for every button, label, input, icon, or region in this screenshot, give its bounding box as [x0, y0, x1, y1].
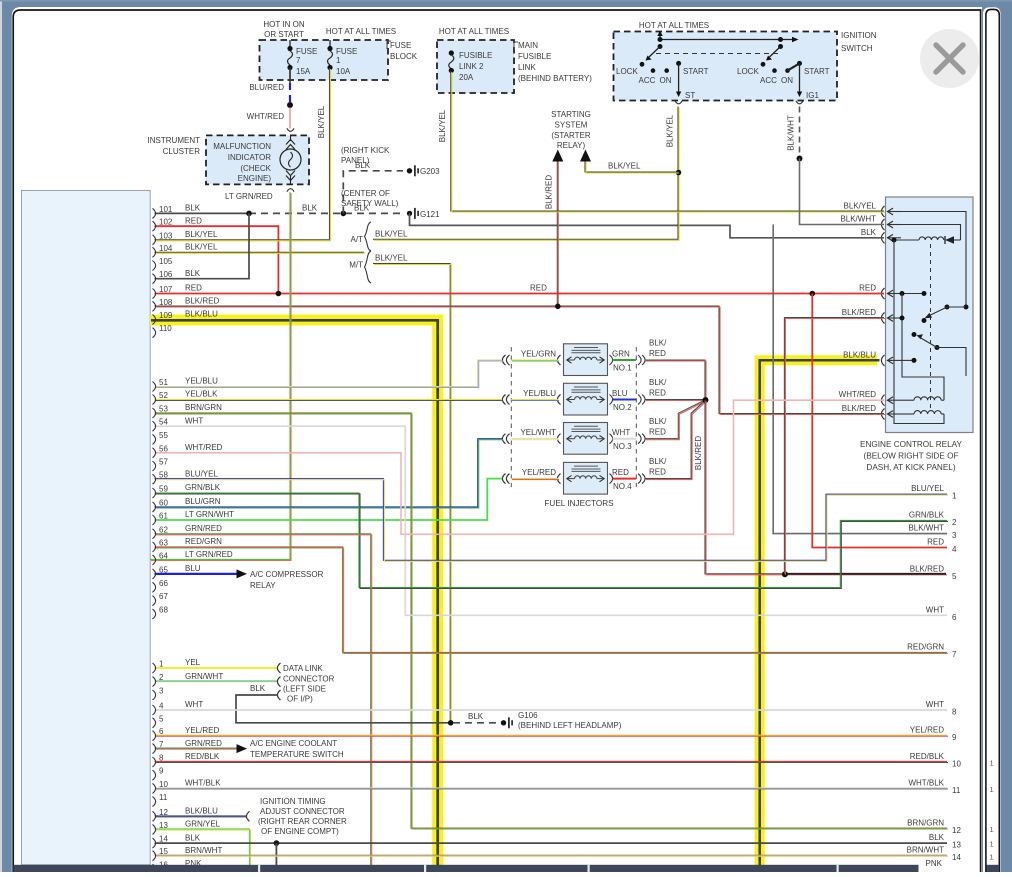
wire BLK drop off page: [275, 843, 277, 866]
svg-text:11: 11: [159, 793, 168, 802]
svg-text:BLK/YEL: BLK/YEL: [375, 229, 408, 238]
ECM pin 106: [153, 274, 156, 284]
svg-text:13: 13: [159, 821, 168, 830]
fuel injector NO.4: [564, 462, 608, 494]
wire 15 BRN/WHT across page: [155, 854, 948, 856]
ECM pin 55: [153, 434, 156, 444]
svg-text:LT GRN/RED: LT GRN/RED: [185, 550, 233, 559]
wire BLK from DLC to G106: [236, 695, 450, 723]
svg-text:BLK: BLK: [302, 203, 318, 212]
fuse block: [260, 40, 389, 80]
wire 52 YEL/BLK to injector NO.2: [155, 399, 503, 401]
svg-text:1: 1: [336, 56, 341, 65]
svg-text:BLK/YEL: BLK/YEL: [185, 230, 218, 239]
svg-text:WHT: WHT: [612, 428, 630, 437]
ignition switch bus wire: [660, 39, 794, 41]
wire BLK/RED main to relay and edge pin 5: [705, 400, 946, 574]
svg-text:15A: 15A: [296, 67, 311, 76]
relay input pin BLK/WHT: [881, 219, 884, 230]
svg-text:53: 53: [159, 405, 168, 414]
wire YEL/WHT injector NO.3 lead: [511, 438, 558, 440]
svg-text:SWITCH: SWITCH: [841, 44, 873, 53]
ECM pin 62: [153, 529, 156, 539]
injector NO.2 connectors: [557, 395, 560, 405]
relay input pin BLK/YEL: [881, 206, 884, 217]
svg-text:NO.4: NO.4: [613, 482, 632, 491]
wire YEL/RED injector NO.4 lead: [511, 478, 558, 480]
junction 107 RED to edge pin 4: [810, 291, 816, 297]
svg-text:66: 66: [159, 579, 168, 588]
svg-text:NO.2: NO.2: [613, 403, 632, 412]
ECM pin 7: [153, 744, 156, 754]
wire 16 PNK stub: [155, 868, 211, 870]
svg-text:52: 52: [159, 391, 168, 400]
svg-text:GRN/BLK: GRN/BLK: [909, 510, 945, 519]
svg-text:NO.1: NO.1: [613, 364, 632, 373]
relay BLK/WHT internal drop: [901, 225, 961, 241]
svg-text:BLK/YEL: BLK/YEL: [666, 114, 675, 147]
wire WHT/RED to cluster: [289, 108, 291, 129]
junction 102/107: [276, 291, 282, 297]
junction 14 BLK: [274, 840, 280, 846]
ECM pin 9: [153, 770, 156, 780]
svg-text:7: 7: [159, 740, 164, 749]
relay input pin BLK/RED: [881, 409, 884, 420]
wire BLK/RED injector NO.2 to junction: [645, 399, 703, 401]
ECM pin 13: [153, 824, 156, 834]
svg-text:OF I/P): OF I/P): [287, 695, 313, 704]
wire 6 YEL/RED across page: [155, 734, 948, 736]
svg-text:ADJUST CONNECTOR: ADJUST CONNECTOR: [260, 807, 345, 816]
svg-text:CONNECTOR: CONNECTOR: [283, 675, 335, 684]
svg-text:RED/BLK: RED/BLK: [185, 752, 220, 761]
svg-text:WHT: WHT: [185, 700, 203, 709]
wire LT GRN/RED from MIL to pin 64: [150, 192, 290, 559]
svg-text:BLK: BLK: [185, 204, 201, 213]
relay switch 1: [964, 305, 969, 310]
svg-text:RED: RED: [649, 468, 666, 477]
svg-text:MAIN: MAIN: [518, 41, 538, 50]
ECM pin 67: [153, 596, 156, 606]
A/T M/T brace: [365, 222, 372, 251]
svg-text:WHT/RED: WHT/RED: [185, 443, 223, 452]
relay BLK/BLU internal stub: [901, 359, 914, 361]
wire M/T BLK/YEL to G106 junction: [373, 264, 450, 723]
ECM pin 66: [153, 582, 156, 592]
relay armature dashed link: [930, 244, 932, 410]
svg-text:9: 9: [159, 767, 164, 776]
ECM pin 11: [153, 797, 156, 807]
svg-text:HOT AT ALL TIMES: HOT AT ALL TIMES: [639, 21, 709, 30]
svg-text:(BEHIND LEFT HEADLAMP): (BEHIND LEFT HEADLAMP): [518, 721, 622, 730]
svg-text:INDICATOR: INDICATOR: [228, 153, 271, 162]
svg-text:68: 68: [159, 606, 168, 615]
ECM pin 101: [153, 208, 156, 218]
junction BLU/RED WHT/RED splice: [287, 102, 293, 108]
wire 104 BLK/YEL to brace: [155, 251, 365, 253]
svg-text:14: 14: [952, 853, 961, 862]
svg-text:WHT/RED: WHT/RED: [247, 112, 285, 121]
highlighted wire 109 BLK/BLU trace (yellow): [150, 320, 438, 866]
svg-text:INSTRUMENT: INSTRUMENT: [148, 136, 201, 145]
svg-text:13: 13: [952, 841, 961, 850]
svg-text:CLUSTER: CLUSTER: [163, 147, 201, 156]
svg-text:BLK/WHT: BLK/WHT: [787, 115, 796, 151]
svg-text:107: 107: [159, 285, 173, 294]
svg-text:BLK: BLK: [355, 161, 371, 170]
svg-text:58: 58: [159, 471, 168, 480]
svg-text:GRN/RED: GRN/RED: [185, 739, 222, 748]
wire 62 GRN/RED down off page: [155, 534, 371, 866]
svg-text:1: 1: [159, 660, 164, 669]
svg-text:WHT: WHT: [185, 416, 203, 425]
ECM pin 61: [153, 515, 156, 525]
svg-text:BLK: BLK: [185, 833, 201, 842]
ECM pin 108: [153, 301, 156, 311]
relay input pin WHT/RED: [881, 395, 884, 406]
svg-text:BLOCK: BLOCK: [390, 52, 418, 61]
wire 107 RED main: [155, 293, 885, 295]
ECM pin 14: [153, 838, 156, 848]
svg-text:RED: RED: [185, 216, 202, 225]
wire 10 WHT/BLK across page: [155, 787, 948, 789]
injector NO.1 connectors: [557, 355, 560, 365]
svg-text:15: 15: [159, 847, 168, 856]
ECM pin 4: [153, 705, 156, 715]
ignition switch left wiper: [658, 37, 663, 42]
wire 14 BLK across page: [155, 842, 948, 844]
svg-text:BLK/BLU: BLK/BLU: [843, 350, 876, 359]
svg-text:BLU/GRN: BLU/GRN: [185, 497, 221, 506]
ECM pin 103: [153, 235, 156, 245]
svg-text:2: 2: [952, 518, 957, 527]
svg-text:BLK/: BLK/: [649, 378, 667, 387]
svg-text:G121: G121: [420, 210, 440, 219]
svg-text:1: 1: [952, 492, 957, 501]
svg-text:11: 11: [952, 786, 961, 795]
wire 13 GRN/YEL down off page: [155, 829, 250, 866]
fuel injector NO.1: [564, 344, 608, 376]
svg-text:OF ENGINE COMPT): OF ENGINE COMPT): [261, 827, 339, 836]
junction BLK G106: [448, 720, 454, 726]
close button: [920, 29, 979, 88]
ECM pin 64: [153, 555, 156, 565]
svg-text:YEL/WHT: YEL/WHT: [520, 428, 556, 437]
svg-text:ST: ST: [685, 91, 695, 100]
wire 108 BLK/RED to relay coil: [155, 306, 885, 414]
ECM pin 63: [153, 542, 156, 552]
ground G106: [501, 720, 506, 725]
wire BLK/RED injector NO.3 to junction: [645, 401, 704, 439]
svg-text:BLK/: BLK/: [649, 457, 667, 466]
svg-text:7: 7: [952, 650, 957, 659]
svg-text:YEL/RED: YEL/RED: [185, 726, 219, 735]
ECM pin 102: [153, 221, 156, 231]
ignition switch right wiper: [778, 37, 783, 42]
svg-text:105: 105: [159, 257, 173, 266]
ECM pin 53: [153, 408, 156, 418]
svg-text:STARTING: STARTING: [551, 110, 591, 119]
svg-text:104: 104: [159, 244, 173, 253]
svg-text:GRN/BLK: GRN/BLK: [185, 483, 221, 492]
svg-text:BLK/RED: BLK/RED: [910, 564, 944, 573]
wire 12 BLK/BLU to ignition timing connector: [155, 815, 247, 817]
wire A/T BLK/YEL to ignition ST: [373, 107, 678, 240]
svg-text:YEL/BLK: YEL/BLK: [185, 390, 218, 399]
svg-text:BLU/YEL: BLU/YEL: [911, 484, 944, 493]
check engine bulb: [280, 149, 301, 170]
svg-text:14: 14: [159, 835, 168, 844]
svg-text:BLU/YEL: BLU/YEL: [185, 469, 218, 478]
wire BLK/WHT from IG1 dashed: [799, 107, 801, 157]
wire BLK/YEL branch to starting system: [585, 159, 678, 172]
svg-text:101: 101: [159, 205, 173, 214]
fuse F1 10A: [329, 40, 331, 48]
main fusible link box: [437, 40, 514, 93]
wire 2 GRN/WHT to data link connector: [155, 680, 278, 682]
svg-text:BLK: BLK: [185, 269, 201, 278]
svg-text:RED: RED: [649, 428, 666, 437]
svg-text:BLK/YEL: BLK/YEL: [375, 254, 408, 263]
svg-text:4: 4: [952, 545, 957, 554]
label MAIN FUSIBLE LINK: [514, 42, 518, 50]
junction injectors BLK/RED: [703, 397, 709, 403]
svg-text:RELAY): RELAY): [557, 141, 586, 150]
svg-text:RED/BLK: RED/BLK: [910, 752, 945, 761]
wire 56 WHT/RED to relay: [155, 400, 885, 534]
svg-text:61: 61: [159, 512, 168, 521]
svg-text:8: 8: [952, 708, 957, 717]
ECM pin 65: [153, 569, 156, 579]
svg-text:(BELOW RIGHT SIDE OF: (BELOW RIGHT SIDE OF: [864, 452, 959, 461]
injector NO.4 right wire segment RED: [613, 478, 637, 480]
svg-text:RED: RED: [649, 349, 666, 358]
svg-text:BLK/RED: BLK/RED: [842, 308, 876, 317]
svg-text:YEL/RED: YEL/RED: [910, 726, 944, 735]
ECM pin 16: [153, 864, 156, 874]
wire 106 BLK: [155, 213, 250, 278]
svg-text:RED/GRN: RED/GRN: [185, 537, 222, 546]
svg-text:RELAY: RELAY: [250, 581, 276, 590]
wire 60 BLU/GRN to injector NO.3: [155, 439, 503, 507]
junction ST branch: [676, 170, 682, 176]
ground G121: [407, 211, 412, 216]
fuel injector NO.2: [564, 383, 608, 415]
svg-text:59: 59: [159, 485, 168, 494]
svg-text:YEL/BLU: YEL/BLU: [185, 377, 218, 386]
svg-text:1: 1: [990, 759, 994, 768]
wire YEL/GRN injector NO.1 lead: [511, 359, 558, 361]
svg-text:(RIGHT REAR CORNER: (RIGHT REAR CORNER: [258, 817, 347, 826]
svg-text:1: 1: [990, 785, 994, 794]
ECM pin 107: [153, 289, 156, 299]
ECM pin 60: [153, 502, 156, 512]
svg-text:ON: ON: [660, 76, 672, 85]
svg-text:DATA LINK: DATA LINK: [283, 664, 323, 673]
svg-text:9: 9: [952, 733, 957, 742]
svg-text:56: 56: [159, 444, 168, 453]
svg-text:FUSIBLE: FUSIBLE: [518, 52, 551, 61]
ECM pin 57: [153, 461, 156, 471]
ECM pin 5: [153, 718, 156, 728]
svg-text:BLK/RED: BLK/RED: [842, 404, 876, 413]
svg-text:(CENTER OF: (CENTER OF: [341, 189, 390, 198]
svg-text:LINK 2: LINK 2: [459, 62, 484, 71]
svg-text:103: 103: [159, 231, 173, 240]
wire RED drop to edge pin 4: [812, 294, 947, 548]
svg-text:WHT: WHT: [926, 605, 944, 614]
bulb connector chevrons top: [286, 140, 295, 150]
svg-text:FUSE: FUSE: [336, 47, 357, 56]
relay input pin RED: [881, 288, 884, 299]
ignition switch box: [614, 32, 838, 101]
svg-text:BRN/WHT: BRN/WHT: [907, 846, 944, 855]
svg-text:M/T: M/T: [349, 261, 363, 270]
svg-text:OR START: OR START: [264, 30, 304, 39]
svg-text:BLK/YEL: BLK/YEL: [608, 162, 641, 171]
svg-text:RED/GRN: RED/GRN: [907, 643, 944, 652]
svg-text:ON: ON: [781, 76, 793, 85]
bulb connector chevrons bottom: [286, 171, 295, 181]
fuse block label: [387, 41, 391, 49]
svg-text:GRN: GRN: [612, 350, 630, 359]
relay coil K2 WHT/RED: [901, 399, 914, 401]
svg-text:A/C COMPRESSOR: A/C COMPRESSOR: [250, 570, 324, 579]
wire 102 RED: [155, 226, 279, 293]
wire 54 WHT to edge pin 6: [155, 426, 948, 615]
data link connector arcs: [277, 663, 280, 673]
svg-text:1: 1: [990, 853, 994, 862]
relay input pin BLK/BLU: [881, 355, 884, 366]
ECM pin 109: [153, 315, 156, 325]
svg-text:51: 51: [159, 378, 168, 387]
wire 101 BLK dashed to grounds: [249, 212, 404, 214]
fuel injector NO.3: [564, 423, 608, 455]
svg-text:BLK/RED: BLK/RED: [545, 175, 554, 209]
svg-text:5: 5: [159, 714, 164, 723]
ECM pin 105: [153, 261, 156, 271]
svg-text:RED: RED: [530, 284, 547, 293]
ECM pin 104: [153, 247, 156, 257]
wire 51 YEL/BLU to injector NO.1: [155, 360, 503, 387]
svg-text:YEL/GRN: YEL/GRN: [521, 350, 556, 359]
svg-text:ACC: ACC: [639, 76, 656, 85]
wire BLK/YEL fusible link to relay: [451, 71, 884, 211]
fusible link 2 20A: [449, 50, 454, 55]
svg-text:SAFETY WALL): SAFETY WALL): [341, 199, 399, 208]
svg-text:BLK: BLK: [354, 203, 370, 212]
svg-text:BRN/GRN: BRN/GRN: [907, 819, 944, 828]
svg-text:ACC: ACC: [760, 76, 777, 85]
ECM pin 8: [153, 757, 156, 767]
svg-text:MALFUNCTION: MALFUNCTION: [213, 142, 271, 151]
wire 58 BLU/YEL to edge pin 1: [155, 479, 948, 561]
svg-text:TEMPERATURE SWITCH: TEMPERATURE SWITCH: [250, 750, 344, 759]
svg-text:12: 12: [159, 808, 168, 817]
wire BLK/RED starter relay drop: [556, 159, 558, 306]
ECM pin 6: [153, 731, 156, 741]
svg-text:10: 10: [159, 780, 168, 789]
relay input pin BLK/RED: [881, 313, 884, 324]
svg-text:BLK/WHT: BLK/WHT: [908, 524, 944, 533]
svg-text:PNK: PNK: [926, 859, 943, 868]
relay input pin BLK: [881, 232, 884, 243]
junction 101/106: [246, 211, 252, 217]
svg-text:IGNITION: IGNITION: [841, 31, 877, 40]
svg-text:6: 6: [159, 727, 164, 736]
svg-text:108: 108: [159, 298, 173, 307]
svg-text:HOT AT ALL TIMES: HOT AT ALL TIMES: [326, 27, 396, 36]
svg-text:3: 3: [952, 531, 957, 540]
svg-text:RED: RED: [927, 538, 944, 547]
svg-text:WHT/RED: WHT/RED: [839, 390, 877, 399]
svg-text:IG1: IG1: [806, 91, 819, 100]
svg-text:FUSE: FUSE: [390, 41, 411, 50]
injector NO.1 right wire segment GRN: [613, 359, 637, 361]
svg-text:BLK/BLU: BLK/BLU: [185, 807, 218, 816]
svg-text:IGNITION TIMING: IGNITION TIMING: [260, 797, 326, 806]
svg-text:65: 65: [159, 565, 168, 574]
svg-text:YEL: YEL: [185, 658, 201, 667]
svg-text:10: 10: [952, 760, 961, 769]
svg-text:WHT: WHT: [926, 700, 944, 709]
ignition switch label: [833, 33, 837, 38]
svg-text:G106: G106: [518, 711, 538, 720]
wire BLU/RED fuse7 dashes: [289, 69, 291, 83]
wire 53 BRN/GRN to edge pin 12: [155, 413, 948, 828]
svg-text:BRN/GRN: BRN/GRN: [185, 403, 222, 412]
fuse F7 15A: [289, 40, 291, 48]
ignition switch IG1 output: [799, 63, 801, 93]
ECM pin 10: [153, 783, 156, 793]
svg-text:106: 106: [159, 270, 173, 279]
dashed BLK to G106: [453, 722, 497, 724]
svg-text:4: 4: [159, 702, 164, 711]
svg-text:LINK: LINK: [518, 63, 536, 72]
svg-text:(RIGHT KICK: (RIGHT KICK: [341, 146, 390, 155]
svg-text:LT GRN/RED: LT GRN/RED: [225, 192, 273, 201]
svg-text:G203: G203: [420, 167, 440, 176]
wire BLK/WHT branch to page edge pin 3: [773, 225, 947, 534]
svg-text:BLK/YEL: BLK/YEL: [438, 109, 447, 142]
ECM connector block: [22, 191, 151, 865]
junction BLK/RED relay branch: [782, 571, 788, 577]
svg-text:WHT/BLK: WHT/BLK: [185, 779, 221, 788]
relay BLK internal ground rail: [892, 238, 897, 243]
svg-text:BLK: BLK: [250, 684, 266, 693]
svg-text:2: 2: [159, 673, 164, 682]
svg-text:63: 63: [159, 539, 168, 548]
ground G203: [407, 168, 412, 173]
wire BLK/WHT from IG1 to relay: [800, 159, 885, 225]
svg-text:3: 3: [159, 687, 164, 696]
relay RED internal: [901, 293, 924, 295]
injector NO.2 right wire segment BLU: [613, 399, 637, 401]
wire 7 GRN/RED to coolant temp switch: [155, 747, 238, 749]
svg-text:BLK/WHT: BLK/WHT: [840, 215, 876, 224]
svg-text:BLK/YEL: BLK/YEL: [317, 105, 326, 138]
wire 63 RED/GRN to edge pin 7: [155, 547, 948, 653]
ECM pin 68: [153, 609, 156, 619]
junction IG1 splice: [797, 156, 803, 162]
svg-text:RED: RED: [859, 284, 876, 293]
wire 4 WHT across page: [155, 709, 948, 711]
wire YEL/BLU injector NO.2 lead: [511, 399, 558, 401]
ECM pin 54: [153, 421, 156, 431]
svg-text:DASH, AT KICK PANEL): DASH, AT KICK PANEL): [866, 463, 955, 472]
junction starter BLK/RED: [555, 304, 561, 310]
svg-text:(BEHIND BATTERY): (BEHIND BATTERY): [518, 74, 592, 83]
